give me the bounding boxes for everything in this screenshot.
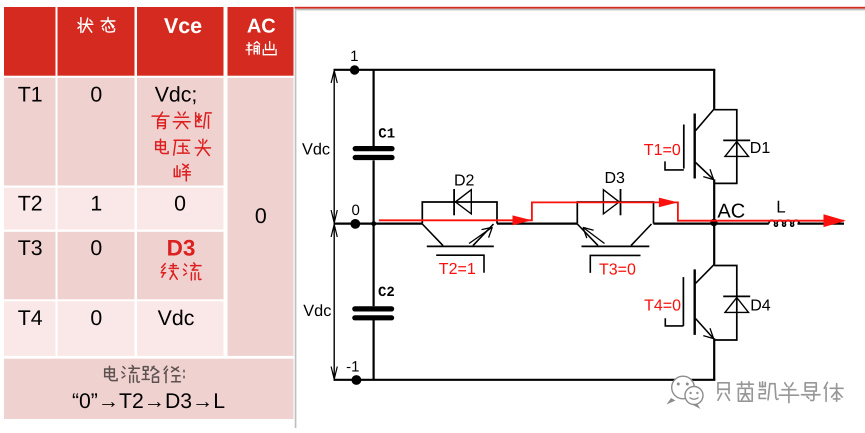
svg-text:T4: T4 <box>18 306 43 330</box>
svg-text:-1: -1 <box>346 359 359 376</box>
svg-text:Vce: Vce <box>164 14 202 38</box>
svg-text:AC: AC <box>717 201 745 223</box>
svg-text:0: 0 <box>174 192 186 216</box>
svg-text:Vdc: Vdc <box>302 140 330 158</box>
svg-text:Vdc: Vdc <box>303 302 331 320</box>
svg-text:0: 0 <box>90 306 102 330</box>
svg-text:T1: T1 <box>18 83 43 107</box>
svg-text:D3: D3 <box>605 170 626 187</box>
svg-text:D2: D2 <box>454 173 475 190</box>
svg-text:T4=0: T4=0 <box>644 298 681 315</box>
svg-text:0: 0 <box>352 202 360 219</box>
svg-text:0: 0 <box>255 204 267 228</box>
svg-text:T2=1: T2=1 <box>439 261 476 278</box>
svg-text:T2: T2 <box>18 192 43 216</box>
svg-text:1: 1 <box>350 48 358 65</box>
svg-text:D1: D1 <box>750 140 771 157</box>
svg-text:AC: AC <box>247 16 276 38</box>
svg-text:“0”→T2→D3→L: “0”→T2→D3→L <box>72 390 225 413</box>
svg-text:Vdc: Vdc <box>158 306 195 330</box>
svg-text:D3: D3 <box>167 235 196 260</box>
svg-text:T3: T3 <box>18 236 43 260</box>
svg-text:0: 0 <box>90 83 102 107</box>
svg-text:1: 1 <box>90 192 102 216</box>
svg-text:D4: D4 <box>750 297 771 314</box>
svg-text:C2: C2 <box>378 285 395 301</box>
svg-text:T1=0: T1=0 <box>644 142 681 159</box>
svg-text:L: L <box>776 197 785 216</box>
svg-text:C1: C1 <box>378 126 395 142</box>
svg-text:T3=0: T3=0 <box>599 261 636 278</box>
svg-text:Vdc;: Vdc; <box>155 83 198 107</box>
svg-text:0: 0 <box>90 236 102 260</box>
